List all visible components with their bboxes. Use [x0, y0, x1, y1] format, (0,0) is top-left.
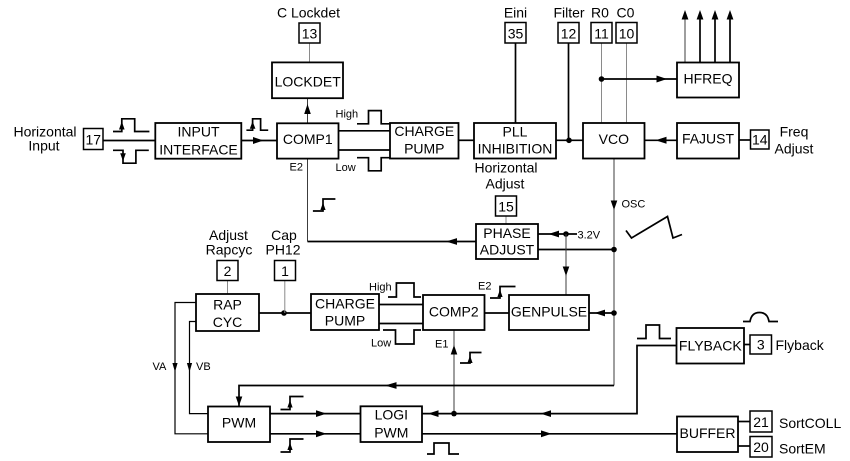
- svg-text:3: 3: [757, 337, 765, 353]
- svg-text:PWM: PWM: [222, 414, 256, 430]
- svg-text:Rapcyc: Rapcyc: [206, 242, 253, 258]
- svg-text:13: 13: [302, 26, 318, 42]
- svg-text:12: 12: [561, 26, 577, 42]
- svg-text:Freq: Freq: [780, 124, 809, 140]
- svg-text:Eini: Eini: [504, 5, 527, 21]
- svg-text:C Lockdet: C Lockdet: [277, 5, 340, 21]
- svg-text:SortEM: SortEM: [779, 441, 826, 457]
- svg-text:VB: VB: [196, 361, 211, 373]
- svg-text:Input: Input: [28, 138, 59, 154]
- svg-text:Low: Low: [371, 338, 391, 350]
- svg-text:VA: VA: [153, 361, 168, 373]
- svg-text:PHASE: PHASE: [483, 225, 530, 241]
- svg-text:CHARGE: CHARGE: [394, 123, 454, 139]
- svg-text:OSC: OSC: [622, 199, 646, 211]
- svg-text:Filter: Filter: [553, 5, 584, 21]
- svg-text:High: High: [369, 282, 392, 294]
- svg-text:HFREQ: HFREQ: [684, 71, 733, 87]
- svg-text:E2: E2: [478, 281, 491, 293]
- svg-text:PUMP: PUMP: [325, 313, 365, 329]
- svg-text:20: 20: [753, 439, 769, 455]
- svg-text:E1: E1: [435, 339, 448, 351]
- svg-text:ADJUST: ADJUST: [480, 242, 535, 258]
- svg-text:1: 1: [281, 263, 289, 279]
- svg-text:BUFFER: BUFFER: [680, 425, 736, 441]
- svg-text:3.2V: 3.2V: [578, 230, 601, 242]
- svg-text:VCO: VCO: [599, 131, 629, 147]
- svg-text:High: High: [336, 109, 359, 121]
- svg-text:21: 21: [753, 414, 769, 430]
- svg-text:Flyback: Flyback: [776, 337, 825, 353]
- svg-text:14: 14: [752, 132, 768, 148]
- svg-text:RAP: RAP: [213, 296, 242, 312]
- svg-text:17: 17: [86, 132, 102, 148]
- svg-text:E2: E2: [290, 162, 303, 174]
- svg-text:CYC: CYC: [213, 314, 243, 330]
- svg-text:FLYBACK: FLYBACK: [679, 338, 742, 354]
- svg-text:CHARGE: CHARGE: [315, 295, 375, 311]
- svg-text:INHIBITION: INHIBITION: [478, 141, 553, 157]
- svg-text:GENPULSE: GENPULSE: [511, 304, 587, 320]
- svg-text:10: 10: [619, 26, 635, 42]
- svg-text:LOCKDET: LOCKDET: [275, 73, 342, 89]
- svg-text:Low: Low: [336, 162, 356, 174]
- svg-text:R0: R0: [591, 5, 609, 21]
- svg-text:15: 15: [498, 199, 514, 215]
- svg-text:PH12: PH12: [265, 242, 300, 258]
- svg-text:INTERFACE: INTERFACE: [159, 141, 238, 157]
- svg-text:PWM: PWM: [374, 424, 408, 440]
- svg-text:PUMP: PUMP: [404, 140, 444, 156]
- svg-text:COMP2: COMP2: [429, 304, 479, 320]
- svg-text:FAJUST: FAJUST: [682, 130, 735, 146]
- svg-text:INPUT: INPUT: [178, 123, 220, 139]
- svg-text:2: 2: [224, 263, 232, 279]
- svg-text:SortCOLL: SortCOLL: [779, 415, 841, 431]
- svg-text:11: 11: [594, 26, 609, 42]
- svg-text:C0: C0: [617, 5, 635, 21]
- svg-text:LOGI: LOGI: [375, 407, 408, 423]
- svg-text:Adjust: Adjust: [486, 176, 525, 192]
- svg-text:COMP1: COMP1: [283, 131, 333, 147]
- svg-text:35: 35: [508, 26, 524, 42]
- svg-text:Horizontal: Horizontal: [474, 160, 537, 176]
- svg-text:PLL: PLL: [503, 124, 528, 140]
- svg-text:Adjust: Adjust: [775, 141, 814, 157]
